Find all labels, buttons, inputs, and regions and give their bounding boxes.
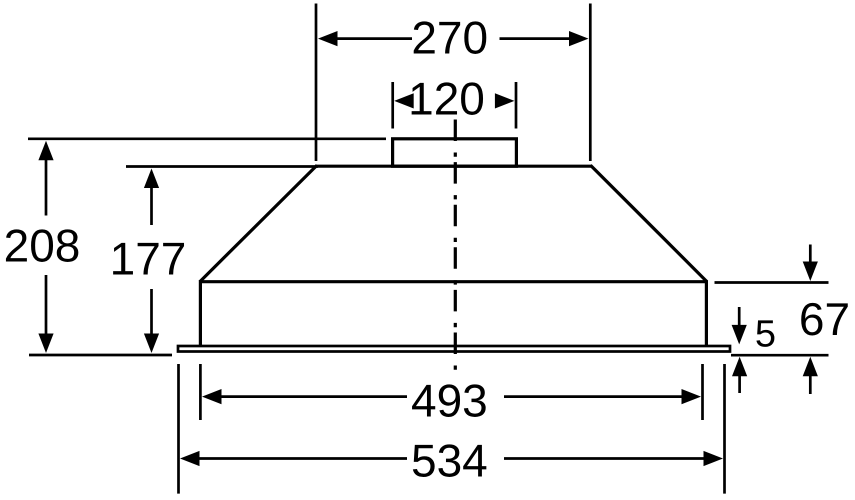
dimension 493 extension line left xyxy=(199,364,202,420)
svg-text:534: 534 xyxy=(411,434,488,486)
dimension 67 extension line top xyxy=(715,281,829,284)
dimension 534 arrow right xyxy=(504,451,723,466)
dimension 534 extension line left xyxy=(177,364,180,494)
dimension 208-177 extension line bottom xyxy=(29,354,172,357)
hood body left side xyxy=(199,280,202,345)
svg-text:177: 177 xyxy=(110,233,187,285)
svg-text:5: 5 xyxy=(755,314,776,356)
dimension 270 extension line right xyxy=(589,4,592,162)
dimension 270 extension line left xyxy=(315,4,318,162)
center line xyxy=(454,120,457,371)
hood left slant edge xyxy=(200,165,317,282)
dimension 5 arrow up xyxy=(732,357,747,393)
svg-text:120: 120 xyxy=(408,72,485,124)
dimension 5 arrow down xyxy=(732,307,747,344)
bottom plate xyxy=(178,346,730,352)
dimension 270 arrow left xyxy=(318,31,412,46)
hood right slant edge xyxy=(591,165,708,282)
dimension 208 arrow down xyxy=(38,275,53,353)
hood body right side xyxy=(705,280,708,345)
hood trapezoid top edge xyxy=(316,165,593,168)
dimension 208 arrow up xyxy=(38,141,53,216)
dimension 270 arrow right xyxy=(500,31,589,46)
dimension 208 extension line top xyxy=(28,137,386,140)
svg-text:493: 493 xyxy=(411,374,488,426)
dimension 120 extension line left xyxy=(391,82,394,129)
dimension 120 arrow right xyxy=(495,93,515,108)
svg-text:67: 67 xyxy=(799,293,850,345)
dimension 67-5 extension line bottom xyxy=(731,354,829,357)
hood body top edge xyxy=(199,280,708,283)
dimension 67 arrow up xyxy=(803,357,818,394)
dimension 493 extension line right xyxy=(701,364,704,420)
dimension 177 arrow up xyxy=(144,169,159,226)
hood duct collar outline xyxy=(393,139,517,166)
dimension 67 arrow down xyxy=(803,245,818,282)
dimension 493 arrow left xyxy=(202,389,407,404)
dimension 120 arrow left xyxy=(394,93,414,108)
svg-text:270: 270 xyxy=(411,11,488,63)
dimension 177 arrow down xyxy=(144,289,159,353)
dimension 493 arrow right xyxy=(504,389,701,404)
dimension 177 extension line top xyxy=(126,165,318,168)
dimension 534 extension line right xyxy=(723,364,726,494)
dimension 120 extension line right xyxy=(515,82,518,129)
svg-text:208: 208 xyxy=(4,219,81,271)
dimension 534 arrow left xyxy=(180,451,407,466)
